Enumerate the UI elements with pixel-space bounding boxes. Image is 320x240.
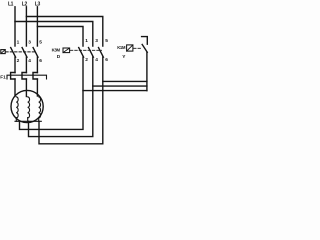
motor winding 1: [16, 97, 18, 118]
svg-text:1: 1: [85, 38, 88, 44]
svg-text:K3M: K3M: [52, 47, 61, 52]
contactor K3M coil symbol box: [63, 48, 70, 53]
winding bottom stubs: [16, 118, 38, 122]
svg-text:6: 6: [39, 58, 42, 64]
contactor K3M pole 2 contact: [89, 48, 94, 58]
contactor K1M contact: [142, 45, 147, 53]
wire rail from L3 to K3M pole1: [37, 27, 83, 47]
wire rail from L2 to K3M pole3: [26, 17, 102, 47]
wire rail from L1 to K3M pole2: [15, 22, 93, 47]
svg-text:2: 2: [85, 57, 88, 63]
overload relay F1 frame: [7, 75, 47, 79]
F1 heater element pole1: [11, 73, 15, 80]
svg-text:5: 5: [39, 39, 42, 45]
svg-text:L1: L1: [8, 2, 14, 8]
contactor K3M pole 3 contact: [99, 48, 104, 58]
contactor K3M pole 1 contact: [79, 48, 84, 58]
F1 heater element pole2: [22, 73, 26, 80]
wire switch pole2 bottom stub: [25, 57, 27, 72]
motor M1 body: [11, 90, 43, 122]
svg-text:K1M: K1M: [117, 45, 126, 50]
motor winding 2: [28, 97, 30, 118]
svg-text:2: 2: [17, 58, 20, 64]
motor winding 3: [39, 97, 41, 118]
wire bridge from K3M pole3 to K1M: [103, 80, 147, 82]
switch Q pole 3 contact: [33, 48, 38, 58]
K1M linkage dashed: [134, 47, 141, 49]
F1 heater element pole3: [33, 73, 37, 80]
wire motor V2 to K3M pole2 bottom: [29, 57, 93, 136]
contactor K1M coil symbol box: [127, 45, 133, 51]
svg-text:3: 3: [28, 39, 31, 45]
wire bridge from K3M pole1 to K1M: [83, 90, 147, 92]
switch Q pole 1 contact: [11, 48, 16, 58]
wire F1 to motor pole2: [25, 79, 27, 97]
svg-text:5: 5: [105, 38, 108, 44]
svg-text:4: 4: [95, 57, 98, 63]
wire motor W2 to K3M pole3 bottom: [39, 57, 103, 144]
svg-text:3: 3: [95, 38, 98, 44]
wire F1 to motor pole3: [36, 79, 38, 96]
svg-text:6: 6: [105, 57, 108, 63]
svg-text:D: D: [57, 54, 61, 60]
svg-text:Y: Y: [122, 54, 126, 60]
motor terminal chord: [15, 120, 41, 122]
switch linkage dashed: [6, 51, 36, 53]
wire K1M bottom vertical: [146, 52, 148, 90]
wire K1M top terminal: [142, 37, 148, 45]
K3M linkage dashed: [70, 49, 101, 51]
svg-text:F1: F1: [0, 75, 6, 80]
wire switch pole1 bottom stub: [14, 57, 16, 72]
wire L2 vertical drop: [25, 7, 27, 46]
switch manual actuator: [1, 50, 5, 54]
wire switch pole3 bottom stub: [36, 57, 38, 72]
wire motor U2 to K3M pole1 bottom: [20, 57, 84, 129]
wire F1 to motor pole1: [14, 79, 16, 96]
svg-text:4: 4: [28, 58, 31, 64]
wire L1 vertical drop: [14, 7, 16, 46]
switch Q pole 2 contact: [22, 48, 27, 58]
wire L3 vertical drop: [36, 7, 38, 46]
wire bridge from K3M pole2 to K1M: [93, 85, 147, 87]
svg-text:1: 1: [17, 39, 20, 45]
